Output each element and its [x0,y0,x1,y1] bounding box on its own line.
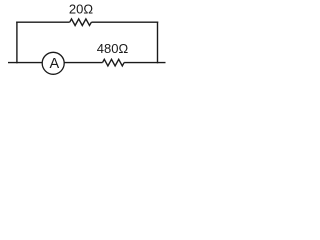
resistor R2 480Ω zigzag [103,59,125,66]
svg-text:A: A [49,56,59,72]
wire bottom-left terminal [8,62,42,64]
wire right vertical [157,22,159,64]
svg-text:20Ω: 20Ω [69,2,93,17]
ammeter A [42,52,64,74]
wire top-left segment [16,21,69,23]
wire R2 to bottom-right terminal [124,62,165,64]
wire top-right segment [91,21,158,23]
wire ammeter to R2 [64,62,102,64]
resistor R1 20Ω zigzag [70,19,92,26]
svg-text:480Ω: 480Ω [97,41,129,56]
wire left vertical [16,22,18,64]
